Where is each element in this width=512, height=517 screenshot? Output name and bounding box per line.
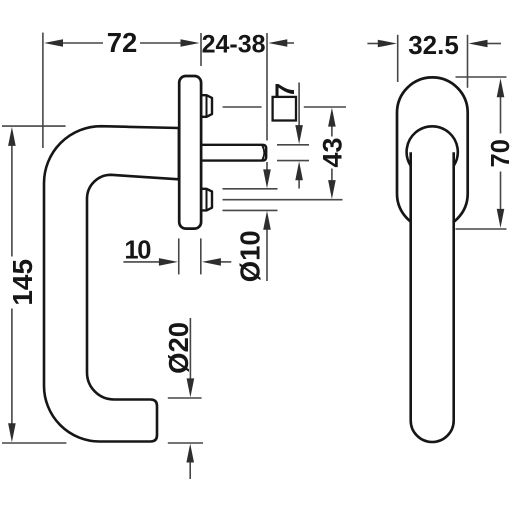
- extension line 70 bottom: [456, 228, 507, 230]
- tail of 32.5 right arrow: [486, 43, 501, 45]
- tail of diameter20 upper arrow: [189, 318, 191, 380]
- svg-text:7: 7: [270, 83, 300, 98]
- extension tick 10 right: [200, 238, 202, 274]
- svg-text:72: 72: [107, 27, 138, 58]
- arrowhead 43 bottom: [328, 180, 336, 199]
- rosette front view stadium: [397, 77, 468, 229]
- svg-text:145: 145: [7, 259, 38, 306]
- arrowhead 32.5 right outside: [469, 40, 488, 48]
- dimension line 145 lower segment: [11, 309, 13, 425]
- extension line left of 72 dim: [42, 33, 44, 148]
- spindle shaft: [201, 145, 266, 161]
- arrowhead diameter20 up: [186, 444, 194, 463]
- rosette plate side view: [179, 76, 201, 229]
- extension line diameter20 bottom: [168, 442, 203, 444]
- tail of diameter20 lower arrow: [189, 462, 191, 480]
- extension line diameter10 top: [223, 188, 278, 190]
- dimension line 43 upper segment: [331, 126, 333, 137]
- svg-text:43: 43: [317, 137, 347, 167]
- extension tick 10 left: [178, 238, 180, 274]
- handle grip front view: [411, 152, 454, 442]
- square symbol for 7mm spindle: [273, 97, 296, 121]
- screw top head line: [206, 95, 208, 117]
- arrowhead 70 bottom: [497, 209, 505, 228]
- arrowhead square7 up: [295, 161, 303, 180]
- arrowhead 43 top: [328, 108, 336, 127]
- tail of 24-38 right arrow: [287, 42, 295, 44]
- tail of square7 lower arrow: [298, 179, 300, 189]
- screw top: [201, 95, 212, 117]
- extension line 43 bottom / screw centerline: [223, 199, 343, 201]
- tail of 10 right outside arrow: [220, 261, 232, 263]
- svg-text:Ø20: Ø20: [163, 322, 194, 374]
- spindle end chamfer line: [262, 146, 264, 161]
- arrowhead diameter10 up: [263, 211, 271, 230]
- extension tick right of 72 dim: [200, 33, 202, 66]
- arrowhead 10 left outside: [202, 258, 221, 266]
- extension line diameter10 bottom: [223, 209, 278, 211]
- arrowhead diameter10 down: [263, 169, 271, 188]
- screw bottom: [201, 189, 212, 211]
- extension line 145 bottom: [2, 442, 66, 444]
- svg-text:Ø10: Ø10: [235, 230, 266, 282]
- dimension line 10: [123, 261, 160, 263]
- svg-text:10: 10: [124, 237, 151, 265]
- tail of diameter10 upper arrow: [266, 162, 268, 172]
- arrowhead 32.5 left outside: [378, 40, 397, 48]
- arrowhead 72 left: [44, 39, 63, 47]
- extension line spindle end: [266, 33, 268, 141]
- svg-text:70: 70: [487, 139, 512, 167]
- arrowhead square7 down: [295, 125, 303, 144]
- dimension line 70 upper segment: [500, 96, 502, 134]
- tail of 32.5 left arrow: [367, 43, 379, 45]
- extension line 145 top: [2, 125, 66, 127]
- tail of diameter10 lower arrow: [266, 229, 268, 282]
- arrowhead diameter20 down: [187, 378, 195, 397]
- tick square7 top: [277, 144, 309, 146]
- svg-text:24-38: 24-38: [202, 30, 266, 58]
- extension line diameter20 top: [168, 397, 202, 399]
- arrowhead 145 bottom: [8, 423, 16, 442]
- arrowhead 70 top: [497, 78, 505, 97]
- extension line 32.5 right: [467, 35, 469, 88]
- dimension line 72: [61, 42, 103, 44]
- handle neck circle front view: [407, 126, 458, 165]
- arrowhead 24-38 right outside: [268, 39, 287, 47]
- arrowhead 72 right / 24-38 left: [181, 39, 200, 47]
- extension line 43 top right segment: [304, 106, 346, 108]
- tick square7 bottom: [277, 160, 309, 162]
- svg-text:32.5: 32.5: [408, 30, 459, 60]
- extension line 70 top: [456, 76, 507, 78]
- dimension line 145 upper segment: [11, 145, 13, 257]
- screw bottom head line: [206, 189, 208, 211]
- extension line 32.5 left: [397, 35, 399, 82]
- handle side view outline: [44, 126, 179, 441]
- extension line 43 top left segment: [223, 106, 262, 108]
- dimension line square7 upper segment: [298, 83, 300, 128]
- dimension line 43 lower segment: [331, 169, 333, 182]
- arrowhead 145 top: [8, 127, 16, 146]
- arrowhead 10 right: [159, 258, 178, 266]
- dimension line 70 lower segment: [500, 172, 502, 211]
